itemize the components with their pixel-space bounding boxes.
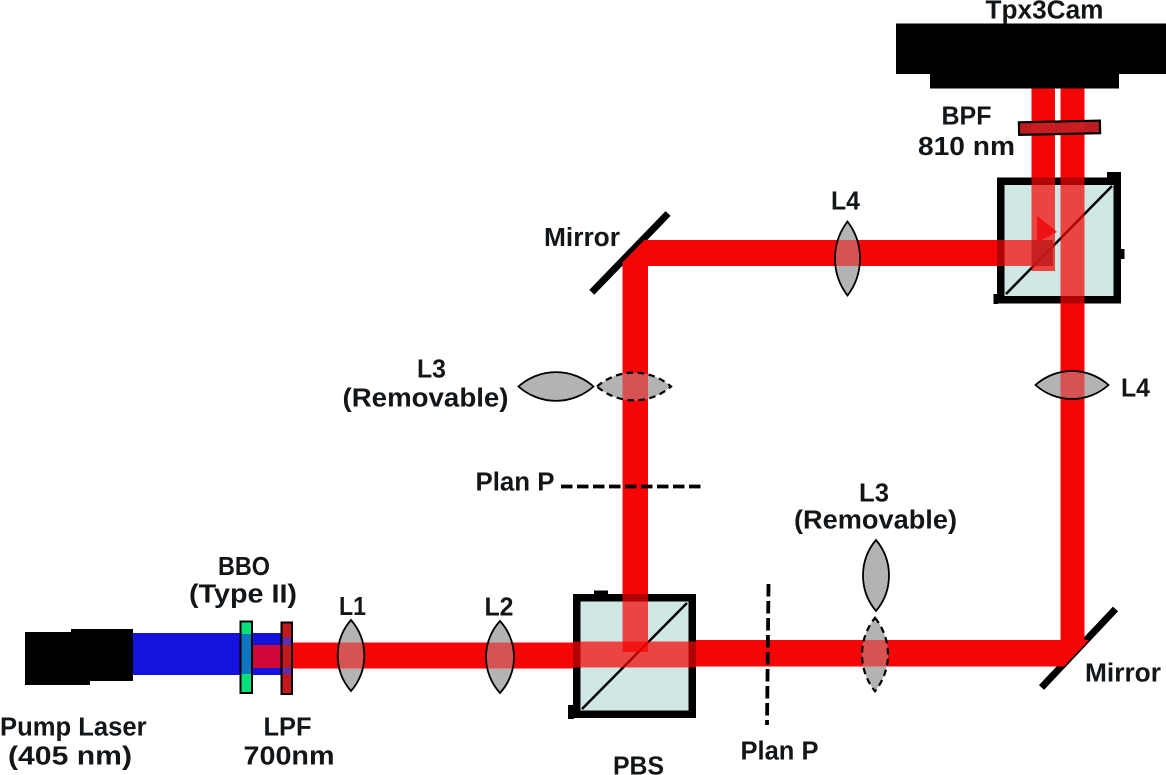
svg-text:Tpx3Cam: Tpx3Cam	[986, 0, 1104, 25]
lens L3 left solid	[519, 372, 594, 401]
red beam: through top cube (vertical, translucent)	[1061, 178, 1085, 304]
lens L4 right	[1036, 350, 1109, 420]
svg-text:(Removable): (Removable)	[794, 507, 957, 535]
svg-text:BBO: BBO	[218, 553, 270, 581]
svg-text:(405 nm): (405 nm)	[8, 743, 132, 771]
red beam: PBS to right mirror (horizontal)	[696, 640, 1089, 667]
svg-text:(Removable): (Removable)	[343, 385, 509, 413]
svg-text:700nm: 700nm	[244, 743, 335, 771]
SPDC crimson segment between BBO and LPF	[253, 645, 291, 668]
red beam: right mirror up to cube (vertical)	[1061, 304, 1085, 641]
svg-text:(Type II): (Type II)	[189, 581, 297, 609]
lens L4 top	[800, 222, 900, 296]
PBS cube body	[568, 591, 696, 720]
svg-text:L2: L2	[485, 594, 514, 622]
svg-text:L1: L1	[339, 593, 366, 621]
BPF 810nm filter bar	[1019, 121, 1100, 135]
pump laser body	[25, 629, 133, 685]
plan P dashed line (left)	[561, 485, 702, 489]
red beam: inside PBS (translucent)	[573, 642, 696, 668]
svg-text:L3: L3	[859, 480, 889, 508]
beamsplitter cube (top right)	[994, 172, 1125, 304]
lens L2	[291, 621, 573, 693]
red beam: camera left leg inside cube (translucent)	[1032, 178, 1056, 272]
plan P dashed line (right)	[767, 584, 769, 725]
red beam: inside PBS vertical (translucent)	[623, 594, 649, 652]
BBO crystal (green plate)	[241, 622, 253, 694]
svg-text:Mirror: Mirror	[1085, 660, 1161, 688]
LPF 700nm plate	[282, 623, 293, 695]
svg-text:Plan P: Plan P	[476, 469, 555, 497]
svg-text:Pump Laser: Pump Laser	[0, 714, 147, 742]
lens L3 left dashed (removable, on beam)	[597, 360, 671, 415]
red beam: cube to camera right (vertical)	[1061, 88, 1085, 178]
svg-text:L4: L4	[831, 188, 861, 216]
lens L1	[291, 620, 573, 691]
svg-text:Mirror: Mirror	[544, 224, 620, 252]
svg-text:L3: L3	[417, 356, 446, 384]
svg-text:PBS: PBS	[613, 753, 664, 775]
blue pump beam	[133, 633, 283, 675]
Tpx3Cam camera body	[896, 24, 1166, 89]
red beam: entering top cube (horizontal, translucent)	[997, 240, 1053, 266]
mirror (bottom right)	[1042, 609, 1116, 688]
lens L3 right solid	[863, 540, 889, 611]
svg-text:810 nm: 810 nm	[918, 133, 1015, 161]
red beam: top mirror to cube (horizontal)	[623, 240, 998, 266]
beam arrowhead inside top cube	[1032, 240, 1054, 266]
lens L3 right dashed (removable, on beam)	[840, 618, 910, 691]
red beam: camera left leg (vertical)	[1032, 88, 1056, 178]
red beam: source to PBS (horizontal)	[291, 643, 573, 669]
mirror (top left)	[592, 214, 668, 293]
svg-text:Plan P: Plan P	[741, 738, 819, 766]
svg-text:L4: L4	[1121, 375, 1151, 403]
svg-text:BPF: BPF	[942, 103, 992, 131]
red beam: PBS up to top mirror (vertical)	[623, 240, 649, 594]
svg-text:LPF: LPF	[264, 714, 312, 742]
